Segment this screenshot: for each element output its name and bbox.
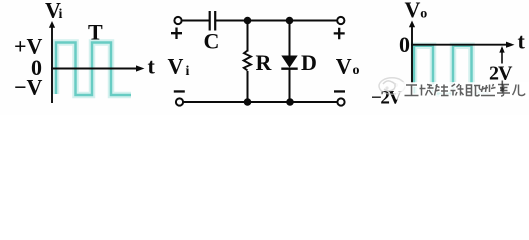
axis Vo arrowhead bbox=[409, 21, 415, 28]
diode D triangle bbox=[281, 56, 297, 68]
node junction dot top-left bbox=[244, 17, 252, 25]
svg-text:i: i bbox=[186, 64, 190, 79]
minus bar left bbox=[174, 90, 185, 92]
svg-text:0: 0 bbox=[399, 32, 410, 57]
dimension arrow 2V lower bbox=[501, 81, 503, 91]
svg-text:T: T bbox=[88, 20, 103, 45]
waveform Vi square wave (glow) bbox=[56, 43, 131, 96]
diode D branch wire upper bbox=[289, 21, 291, 57]
svg-text:V: V bbox=[168, 54, 184, 79]
plus sign right bbox=[334, 28, 345, 40]
svg-text:t: t bbox=[518, 29, 526, 54]
capacitor C plates bbox=[209, 11, 211, 31]
watermark text band bbox=[396, 82, 529, 100]
watermark fake glyphs bbox=[405, 84, 526, 96]
terminal top-right bbox=[337, 17, 344, 24]
resistor R zigzag bbox=[244, 51, 251, 71]
svg-text:−V: −V bbox=[14, 75, 43, 100]
svg-text:D: D bbox=[301, 50, 317, 75]
resistor R branch wire lower bbox=[247, 71, 249, 102]
resistor R branch wire upper bbox=[247, 21, 249, 52]
plus sign left bbox=[171, 28, 182, 40]
waveform Vi square wave bbox=[56, 43, 131, 96]
axis Vo vertical bbox=[411, 25, 413, 96]
waveform Vo square wave bbox=[414, 46, 489, 94]
wire top left (terminal to capacitor) bbox=[182, 20, 210, 22]
svg-text:R: R bbox=[256, 50, 273, 75]
dimension arrow 2V upper bbox=[501, 48, 503, 64]
diode D branch wire lower bbox=[289, 69, 291, 102]
svg-text:2V: 2V bbox=[489, 63, 513, 85]
svg-text:o: o bbox=[420, 7, 427, 22]
svg-text:o: o bbox=[353, 63, 360, 78]
svg-text:C: C bbox=[204, 29, 220, 54]
minus bar right bbox=[334, 90, 345, 92]
wire bottom bbox=[183, 101, 338, 103]
svg-text:t: t bbox=[148, 54, 156, 79]
wire top (capacitor to right terminal) bbox=[216, 20, 338, 22]
axis t2 arrowhead bbox=[506, 42, 515, 48]
axis t horizontal bbox=[51, 68, 137, 70]
axis t2 horizontal bbox=[411, 44, 508, 46]
watermark logo stamp bbox=[379, 78, 405, 94]
diode D cathode bar bbox=[281, 67, 297, 69]
axis t arrowhead bbox=[136, 65, 145, 71]
axis Vi arrowhead bbox=[49, 21, 55, 28]
terminal bottom-left bbox=[176, 98, 183, 105]
node junction dot top-right bbox=[286, 17, 294, 25]
svg-text:V: V bbox=[336, 54, 352, 79]
svg-text:V: V bbox=[405, 0, 421, 22]
node junction dot bottom-left bbox=[244, 98, 252, 106]
terminal top-left bbox=[174, 17, 181, 24]
axis Vi vertical bbox=[51, 25, 53, 103]
terminal bottom-right bbox=[337, 98, 344, 105]
svg-text:i: i bbox=[59, 7, 63, 22]
waveform Vo square wave (glow) bbox=[414, 46, 489, 94]
node junction dot bottom-right bbox=[286, 98, 294, 106]
